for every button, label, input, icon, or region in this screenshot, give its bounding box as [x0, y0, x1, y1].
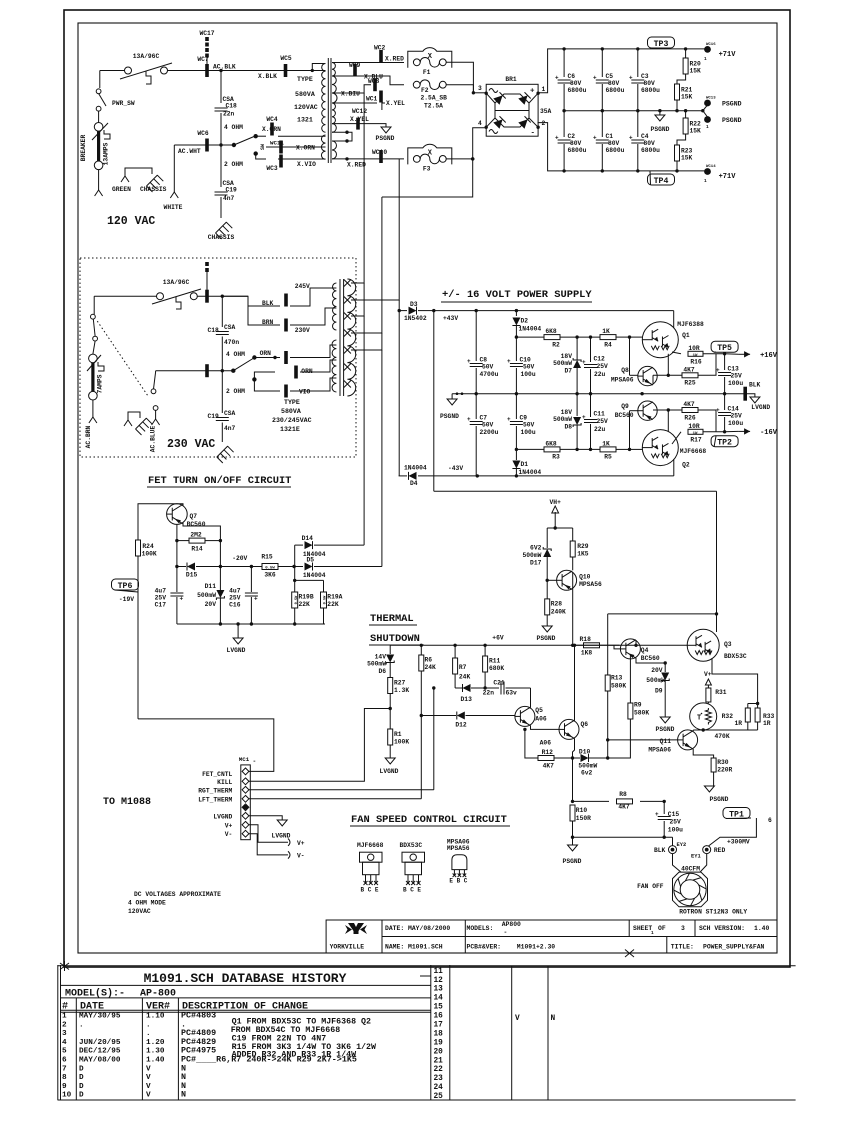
svg-text:2: 2	[62, 1021, 67, 1029]
transformer T1 primary lower section	[321, 135, 325, 159]
svg-text:BC560: BC560	[615, 412, 634, 419]
resistor R19A 22K	[323, 580, 325, 592]
svg-text:WC16: WC16	[706, 43, 716, 47]
svg-text:GREEN: GREEN	[112, 186, 131, 193]
breaker 13AMPS	[94, 123, 103, 132]
svg-text:ROTRON ST12N3 ONLY: ROTRON ST12N3 ONLY	[679, 909, 747, 916]
resistor R2 6K8	[516, 336, 544, 338]
svg-text:+: +	[629, 135, 633, 142]
wire EY1 to TP1	[709, 818, 757, 846]
resistor R17 10R	[672, 432, 681, 444]
svg-text:20V: 20V	[651, 667, 663, 674]
svg-text:R19A: R19A	[327, 594, 342, 601]
svg-text:R29: R29	[577, 543, 589, 550]
svg-text:BDX53C: BDX53C	[400, 842, 423, 849]
svg-text:X.ORN: X.ORN	[296, 145, 315, 152]
svg-text:D14: D14	[302, 535, 314, 542]
svg-text:10R: 10R	[688, 345, 700, 352]
capacitor C6	[563, 49, 565, 77]
svg-text:20V: 20V	[205, 601, 217, 608]
chassis ground symbol 230V box	[128, 412, 140, 420]
svg-text:FAN SPEED CONTROL CIRCUIT: FAN SPEED CONTROL CIRCUIT	[351, 814, 507, 826]
transistor Q7 BC560	[167, 504, 188, 525]
svg-text:R20: R20	[690, 61, 702, 68]
svg-text:4u7: 4u7	[229, 588, 241, 595]
svg-text:BREAKER: BREAKER	[80, 135, 87, 162]
wire Q8 emitter junction	[652, 375, 654, 384]
svg-text:ORN: ORN	[301, 368, 313, 375]
svg-text:80V: 80V	[608, 140, 620, 147]
wire Q6 collector up	[574, 645, 576, 720]
svg-text:OF: OF	[658, 925, 666, 932]
capacitor C10 100u	[515, 335, 518, 338]
connector WC8	[373, 78, 377, 91]
svg-text:+: +	[530, 88, 535, 96]
wire Q1 collector top	[673, 311, 675, 328]
svg-text:R24: R24	[142, 543, 154, 550]
svg-text:500mW: 500mW	[646, 677, 665, 684]
svg-text:1321E: 1321E	[280, 426, 300, 433]
terminal PSGND wires	[703, 105, 708, 111]
svg-text:100u: 100u	[728, 380, 743, 387]
svg-text:POWER_SUPPLY&FAN: POWER_SUPPLY&FAN	[703, 944, 765, 951]
svg-text:MAY/30/95: MAY/30/95	[79, 1013, 121, 1021]
svg-text:9: 9	[62, 1083, 67, 1091]
diode D1 1N4004	[515, 449, 517, 460]
svg-text:C12: C12	[594, 356, 606, 363]
connector WC3	[279, 155, 283, 168]
svg-text:4: 4	[478, 120, 482, 127]
svg-text:4: 4	[62, 1039, 67, 1047]
svg-text:22n: 22n	[223, 111, 235, 118]
transistor Q2 MJF6668	[642, 430, 678, 466]
svg-text:1K8: 1K8	[581, 650, 593, 657]
terminal EY1 RED	[703, 846, 711, 854]
svg-text:22u: 22u	[594, 426, 606, 433]
svg-text:120 VAC: 120 VAC	[107, 215, 155, 228]
resistor R7 24K	[453, 644, 456, 647]
svg-text:X.VIO: X.VIO	[297, 161, 316, 168]
svg-text:80V: 80V	[644, 80, 656, 87]
diode D5 1N4004	[294, 566, 303, 568]
wire Q3 emitter to R32 R33	[712, 658, 758, 704]
svg-text:FAN OFF: FAN OFF	[637, 883, 664, 890]
svg-text:6K8: 6K8	[545, 328, 557, 335]
wire 4 ohm tap	[256, 135, 266, 137]
svg-text:-19V: -19V	[119, 596, 134, 603]
history table frame	[58, 965, 796, 967]
svg-text:22: 22	[434, 1066, 444, 1074]
svg-text:MODEL(S):-: MODEL(S):-	[65, 988, 125, 1000]
svg-text:25V: 25V	[731, 413, 743, 420]
wire F1 out	[446, 62, 473, 93]
connector WC12	[356, 118, 360, 130]
resistor R28 240K	[546, 580, 548, 599]
svg-text:PSGND: PSGND	[656, 726, 675, 733]
svg-text:50V: 50V	[523, 364, 535, 371]
svg-text:PSGND: PSGND	[563, 858, 582, 865]
svg-text:230V: 230V	[295, 327, 310, 334]
transformer T1 core	[327, 58, 329, 163]
svg-text:230 VAC: 230 VAC	[167, 438, 215, 451]
svg-text:D: D	[79, 1083, 84, 1091]
svg-text:BC560: BC560	[641, 655, 660, 662]
svg-text:24: 24	[434, 1084, 444, 1092]
svg-text:#: #	[62, 1001, 68, 1012]
svg-text:1R: 1R	[734, 720, 742, 727]
svg-text:R6: R6	[425, 657, 433, 664]
svg-text:R12: R12	[542, 749, 554, 756]
svg-text:V: V	[146, 1083, 151, 1091]
svg-text:WC12: WC12	[352, 108, 367, 115]
transistor Q4 BC560	[620, 639, 640, 659]
logo YORKVILLE	[348, 923, 364, 934]
svg-text:5: 5	[62, 1048, 67, 1056]
svg-text:1N5402: 1N5402	[404, 315, 427, 322]
capacitor C9 100u	[515, 394, 517, 419]
svg-text:10R: 10R	[688, 423, 700, 430]
transformer T2 secondary	[347, 279, 355, 396]
svg-text:WC14: WC14	[706, 165, 716, 169]
svg-text:D13: D13	[461, 696, 473, 703]
svg-text:WC11: WC11	[270, 140, 284, 147]
svg-text:BLK: BLK	[749, 382, 761, 389]
svg-text:50V: 50V	[482, 364, 494, 371]
svg-text:6800u: 6800u	[606, 147, 625, 154]
svg-text:13A/96C: 13A/96C	[133, 53, 160, 60]
svg-text:500mW: 500mW	[522, 552, 541, 559]
transformer T1 secondary winding	[332, 63, 335, 77]
svg-text:T: T	[697, 715, 701, 723]
wire LFT_THERM riser	[420, 716, 422, 799]
svg-text:F2: F2	[421, 87, 429, 94]
wire F3 out to bridge	[446, 128, 487, 159]
connector 230V neutral	[205, 364, 209, 377]
wire secondary bottom X.RED WC10	[332, 158, 404, 160]
svg-text:25V: 25V	[597, 418, 609, 425]
svg-text:+: +	[507, 416, 511, 423]
svg-text:X.ORN: X.ORN	[262, 126, 281, 133]
svg-text:R28: R28	[551, 601, 563, 608]
svg-text:+: +	[629, 75, 633, 82]
svg-text:AC.BLUE: AC.BLUE	[150, 426, 157, 453]
svg-text:CHASSIS: CHASSIS	[208, 234, 235, 241]
resistor R20 15K	[684, 47, 687, 50]
svg-text:100u: 100u	[521, 429, 536, 436]
svg-text:PWR_SW: PWR_SW	[112, 100, 135, 107]
svg-text:+: +	[467, 358, 471, 365]
svg-text:14: 14	[434, 995, 444, 1003]
svg-text:+: +	[555, 135, 559, 142]
resistor R13 580K	[607, 614, 609, 675]
svg-text:+: +	[593, 135, 597, 142]
svg-text:11: 11	[434, 968, 444, 976]
wire Q7 base drop	[176, 524, 178, 540]
title block box	[326, 920, 777, 953]
capacitor C21 22n	[500, 682, 502, 695]
connector BLK	[284, 294, 288, 307]
svg-text:6V2: 6V2	[530, 545, 542, 552]
svg-text:FET_CNTL: FET_CNTL	[202, 771, 232, 778]
svg-text:D1: D1	[521, 461, 529, 468]
svg-text:Q8: Q8	[621, 367, 629, 374]
svg-text:C21: C21	[493, 680, 505, 687]
svg-text:4 OHM: 4 OHM	[226, 351, 245, 358]
svg-text:1.30: 1.30	[146, 1048, 165, 1056]
svg-text:D11: D11	[205, 583, 217, 590]
svg-text:DC VOLTAGES APPROXIMATE: DC VOLTAGES APPROXIMATE	[134, 891, 221, 898]
wire secondary tap X.BLU	[332, 75, 362, 77]
svg-text:35A: 35A	[540, 108, 552, 115]
svg-text:ADDED R32 AND R33 1R 1/4W: ADDED R32 AND R33 1R 1/4W	[232, 1050, 356, 1060]
svg-text:240K: 240K	[551, 609, 566, 616]
transformer T1 primary winding	[322, 64, 326, 133]
svg-text:WC17: WC17	[199, 30, 214, 37]
svg-text:22K: 22K	[327, 601, 339, 608]
svg-text:580VA: 580VA	[281, 408, 301, 415]
svg-text:+16V: +16V	[760, 352, 778, 360]
wire BRN tap 230V	[248, 306, 280, 325]
svg-text:Q4: Q4	[641, 647, 649, 654]
green chassis bond	[125, 168, 152, 176]
svg-text:V: V	[146, 1065, 151, 1073]
svg-text:4K7: 4K7	[543, 763, 555, 770]
svg-text:THERMAL: THERMAL	[370, 613, 414, 625]
svg-text:Q10: Q10	[579, 574, 591, 581]
230VAC option box	[80, 258, 356, 457]
connector WC17	[205, 37, 209, 41]
svg-text:KILL: KILL	[217, 779, 232, 786]
capacitor C11 22u	[590, 394, 592, 417]
transformer T1 secondary series jog	[332, 132, 352, 141]
svg-text:T2.5A: T2.5A	[424, 103, 443, 110]
svg-text:25: 25	[434, 1093, 444, 1101]
svg-text:13AMPS: 13AMPS	[103, 142, 110, 165]
switch selector 230V	[231, 369, 235, 373]
svg-text:+: +	[507, 358, 511, 365]
capacitor C5	[601, 49, 603, 77]
resistor R26 4K7	[653, 409, 682, 411]
svg-text:1.20: 1.20	[146, 1039, 165, 1047]
svg-text:PC#4803: PC#4803	[181, 1011, 216, 1021]
wire Q4 base jog	[614, 645, 620, 649]
connector WC6	[205, 139, 209, 152]
svg-text:MJF6388: MJF6388	[677, 321, 704, 328]
connector BLK LVGND	[743, 387, 747, 401]
svg-text:PCB#&VER:: PCB#&VER:	[467, 943, 502, 950]
wire Q10 emitter to rail	[572, 572, 574, 645]
svg-text:AC.BLK: AC.BLK	[213, 64, 236, 71]
svg-text:N: N	[181, 1090, 186, 1100]
svg-text:E B C: E B C	[449, 878, 467, 885]
svg-text:BLK: BLK	[262, 300, 274, 307]
svg-text:PSGND: PSGND	[376, 135, 395, 142]
wire WC17 to WC7	[206, 57, 208, 64]
wire left branch down	[176, 541, 178, 592]
zener D8 18V	[576, 394, 578, 416]
wire Q4 emitter up	[635, 640, 637, 645]
wire secondary tap X.RED top	[332, 62, 404, 64]
svg-text:10: 10	[62, 1092, 72, 1100]
diode D15	[175, 565, 178, 568]
capacitor C14 100u	[724, 394, 726, 410]
svg-text:WC10: WC10	[372, 149, 387, 156]
svg-text:8: 8	[62, 1074, 67, 1082]
capacitor C18B 470n	[221, 296, 223, 327]
wire secondary tap to WC8 node	[332, 85, 371, 93]
svg-text:C8: C8	[480, 357, 488, 364]
svg-text:19: 19	[434, 1039, 444, 1047]
svg-text:100K: 100K	[142, 551, 157, 558]
svg-text:A06: A06	[540, 740, 552, 747]
svg-text:1W: 1W	[693, 354, 698, 358]
svg-text:R21: R21	[681, 87, 693, 94]
svg-text:1.40: 1.40	[754, 925, 770, 932]
svg-text:BLK: BLK	[654, 847, 666, 854]
wire +43V rail	[434, 310, 674, 312]
svg-text:LVGND: LVGND	[751, 404, 770, 411]
svg-text:Q9: Q9	[621, 403, 629, 410]
capacitor C16 4u7	[250, 567, 252, 593]
svg-text:F1: F1	[423, 69, 431, 76]
svg-text:100K: 100K	[394, 739, 409, 746]
svg-text:R9: R9	[634, 702, 642, 709]
resistor R24 100K	[136, 540, 141, 556]
svg-text:220R: 220R	[717, 767, 732, 774]
svg-text:3K6: 3K6	[264, 572, 276, 579]
resistor R6 24K	[420, 644, 423, 647]
fuse F1	[413, 59, 420, 66]
svg-text:C11: C11	[594, 411, 606, 418]
svg-text:AP800: AP800	[502, 921, 521, 928]
svg-text:C7: C7	[480, 415, 488, 422]
connector MC1 pins	[242, 768, 249, 775]
svg-text:18V: 18V	[561, 353, 573, 360]
wire center tap to PSGND	[332, 124, 386, 127]
terminal +16V	[723, 352, 726, 355]
svg-text:25V: 25V	[670, 819, 682, 826]
wire D14 junction to R19B	[294, 545, 296, 580]
wire center bus down to D3 D4	[398, 300, 400, 476]
svg-text:245V: 245V	[295, 283, 310, 290]
svg-text:NAME: M1091.SCH: NAME: M1091.SCH	[385, 944, 443, 951]
svg-text:100u: 100u	[521, 371, 536, 378]
capacitor C3	[637, 49, 639, 77]
svg-text:D: D	[79, 1065, 84, 1073]
resistor R22 15K	[684, 109, 687, 112]
resistor R9 580K	[629, 654, 631, 703]
svg-text:MJF6668: MJF6668	[357, 842, 384, 849]
svg-text:BR1: BR1	[505, 76, 517, 83]
transistor Q3 BDX53C	[687, 629, 719, 661]
svg-text:C19: C19	[208, 413, 220, 420]
svg-text:V+: V+	[225, 822, 233, 829]
resistor R25 4K7	[667, 374, 670, 377]
svg-text:D: D	[79, 1074, 84, 1082]
svg-text:DATE: MAY/08/2000: DATE: MAY/08/2000	[385, 925, 450, 932]
ground PSGND D9	[660, 717, 670, 723]
svg-text:VIO: VIO	[299, 389, 311, 396]
svg-text:R16: R16	[690, 359, 702, 366]
svg-text:50V: 50V	[523, 422, 535, 429]
svg-text:18: 18	[434, 1031, 444, 1039]
svg-text:4700u: 4700u	[480, 371, 499, 378]
svg-text:R30: R30	[717, 759, 729, 766]
svg-text:1.40: 1.40	[146, 1057, 165, 1065]
svg-text:1: 1	[706, 124, 709, 130]
svg-text:C15: C15	[668, 811, 680, 818]
svg-text:7AMPS: 7AMPS	[97, 374, 104, 393]
svg-text:1N4004: 1N4004	[404, 465, 427, 472]
svg-text:EY2: EY2	[677, 842, 687, 848]
capacitor C19 4n7	[220, 145, 222, 187]
svg-text:X.RED: X.RED	[347, 162, 366, 169]
svg-text:DATE: DATE	[80, 1001, 104, 1012]
svg-text:TYPE: TYPE	[284, 399, 300, 406]
wire VIO 2ohm	[254, 379, 280, 391]
svg-text:X.YEL: X.YEL	[386, 100, 405, 107]
resistor R4 1K	[575, 335, 578, 338]
svg-text:D2: D2	[521, 318, 529, 325]
wire 2 ohm tap	[256, 154, 266, 159]
svg-text:+300MV: +300MV	[727, 839, 750, 846]
diode D4 1N4004	[409, 472, 417, 480]
svg-text:+: +	[555, 75, 559, 82]
svg-text:R18: R18	[580, 636, 592, 643]
wire V+ pin	[249, 825, 288, 842]
svg-text:1: 1	[651, 930, 654, 936]
svg-text:B C E: B C E	[403, 887, 421, 894]
svg-text:15K: 15K	[681, 155, 693, 162]
svg-text:1K5: 1K5	[577, 551, 589, 558]
resistor R21 15K	[677, 74, 686, 84]
svg-text:+6V: +6V	[492, 635, 504, 642]
svg-text:JUN/20/95: JUN/20/95	[79, 1039, 121, 1047]
svg-text:SHEET: SHEET	[633, 925, 652, 932]
svg-text:470n: 470n	[224, 339, 239, 346]
svg-text:6v2: 6v2	[581, 770, 593, 777]
switch AC.BRN	[91, 314, 96, 319]
svg-text:21: 21	[434, 1057, 444, 1065]
svg-text:500mW: 500mW	[197, 592, 216, 599]
resistor R15 3K6	[250, 565, 253, 568]
transistor Q9 BC560	[638, 401, 657, 420]
svg-text:40CFM: 40CFM	[681, 866, 700, 873]
svg-text:580K: 580K	[611, 683, 626, 690]
wire secondary bus down left	[351, 283, 364, 316]
history table column lines	[75, 998, 77, 1100]
svg-text:470K: 470K	[715, 733, 730, 740]
wire fan lower rail	[573, 836, 673, 838]
svg-text:15K: 15K	[690, 128, 702, 135]
svg-text:500mW: 500mW	[553, 360, 572, 367]
capacitor C1	[601, 111, 603, 137]
svg-text:PSGND: PSGND	[537, 635, 556, 642]
svg-text:Q3: Q3	[724, 641, 732, 648]
mid rail PSGND	[564, 110, 703, 112]
switch impedance selector	[232, 143, 236, 147]
svg-text:C10: C10	[520, 357, 532, 364]
svg-text:VER#: VER#	[146, 1001, 170, 1012]
bridge rectifier BR1	[486, 84, 538, 136]
svg-text:R17: R17	[690, 437, 702, 444]
capacitor C12 22u	[590, 337, 592, 362]
svg-text:MPSA56: MPSA56	[579, 581, 602, 588]
svg-text:C14: C14	[728, 406, 740, 413]
svg-text:25V: 25V	[731, 373, 743, 380]
svg-text:TP4: TP4	[654, 177, 669, 186]
capacitor C15 100u	[663, 800, 666, 803]
